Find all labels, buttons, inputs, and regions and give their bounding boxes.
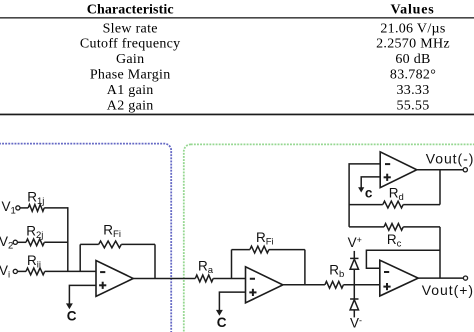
svg-text:V+: V+ (348, 235, 362, 250)
resistor Rij (26, 268, 45, 275)
svg-text:Slew rate: Slew rate (103, 22, 158, 37)
svg-text:V-: V- (350, 316, 362, 331)
wire Rb to op-amp U3 non-inverting input (343, 284, 379, 286)
op-amp U1 (96, 261, 133, 297)
wire V1 to R1j (20, 207, 28, 209)
svg-text:Gain: Gain (116, 52, 144, 67)
svg-text:C: C (67, 309, 77, 324)
svg-text:Rc: Rc (387, 232, 402, 250)
control arrow c (stage 2) (216, 310, 223, 316)
op-amp U4 (Vout- inverter) (380, 152, 417, 188)
svg-text:R2j: R2j (26, 223, 43, 241)
svg-text:RFi: RFi (256, 230, 274, 248)
wire Vi to Rij (17, 270, 26, 272)
svg-text:V2: V2 (0, 234, 13, 252)
svg-text:Ra: Ra (198, 259, 214, 277)
wire Ra to op-amp U2 inverting input (213, 277, 245, 279)
resistor Rc (349, 226, 384, 228)
control arrow c (U4) (358, 187, 364, 192)
op-amp U4 non-inverting input wire to control node c (361, 177, 380, 188)
feedback resistor RFi (stage 2) (231, 250, 233, 279)
op-amp U3 feedback wire from output to inverting input (366, 250, 440, 268)
svg-text:A2 gain: A2 gain (107, 98, 154, 113)
clamp diode D1 (350, 257, 358, 259)
clamp diode D2 (350, 298, 358, 300)
svg-text:Phase Margin: Phase Margin (90, 68, 171, 83)
wire D2 to V- (353, 310, 355, 318)
summing bus vertical wire (67, 207, 69, 271)
svg-text:Rij: Rij (27, 253, 41, 271)
wire U4 inverting input to Rd/Rc node (349, 164, 380, 227)
op-amp U3 (Vout+ buffer) (380, 260, 418, 296)
svg-text:Vout(-): Vout(-) (426, 150, 474, 166)
svg-text:C: C (217, 315, 227, 330)
wire D1 to signal node (353, 269, 355, 285)
svg-text:83.782°: 83.782° (390, 68, 436, 83)
wire Rij to op-amp U1 inverting input (45, 270, 96, 272)
wire V+ to clamp diode D1 (353, 251, 355, 259)
op-amp U2 (246, 267, 283, 303)
svg-text:Characteristic: Characteristic (87, 2, 174, 17)
svg-text:Vi: Vi (0, 263, 10, 281)
wire R2j to bus (44, 241, 68, 243)
svg-text:V1: V1 (2, 199, 16, 217)
wire R1j to bus (44, 207, 68, 209)
feedback resistor RFi (stage 1) (79, 244, 81, 271)
table header rule (0, 17, 474, 18)
wire U3 output to Vout(+) terminal (418, 277, 463, 279)
wire U2 output to Rb (283, 284, 325, 286)
table bottom rule (0, 114, 474, 116)
svg-text:Rb: Rb (329, 262, 344, 280)
green dotted box (stage A2) (184, 144, 474, 332)
svg-text:c: c (365, 185, 373, 200)
wire U4 output to Vout(-) terminal (417, 169, 463, 171)
svg-text:A1 gain: A1 gain (107, 83, 154, 98)
resistor R2j (26, 239, 44, 246)
svg-text:R1j: R1j (27, 189, 44, 207)
svg-text:Cutoff frequency: Cutoff frequency (80, 37, 181, 52)
blue dotted box (stage A1) (0, 144, 171, 332)
svg-text:21.06 V/µs: 21.06 V/µs (380, 22, 445, 37)
control arrow c (stage 1) (66, 303, 73, 309)
terminal Vout(+) (463, 276, 467, 280)
svg-text:Values: Values (391, 2, 435, 17)
wire signal node to D2 (353, 285, 355, 299)
svg-text:RFi: RFi (103, 222, 121, 240)
op-amp U1 non-inverting input wire to control node c (69, 285, 96, 303)
op-amp U2 non-inverting input wire to control node c (219, 292, 245, 310)
svg-text:55.55: 55.55 (397, 98, 430, 113)
svg-text:Vout(+): Vout(+) (422, 282, 474, 298)
resistor R1j (28, 205, 44, 212)
svg-text:60 dB: 60 dB (395, 52, 430, 67)
wire V2 to R2j (17, 241, 26, 243)
svg-text:2.2570 MHz: 2.2570 MHz (376, 37, 450, 52)
svg-text:33.33: 33.33 (397, 83, 430, 98)
wire U1 output to Ra (133, 277, 195, 279)
wire Rd to Vout(-) node (439, 170, 441, 205)
node wire joining Rc and U3 output (439, 227, 441, 278)
terminal Vout(-) (463, 168, 467, 172)
